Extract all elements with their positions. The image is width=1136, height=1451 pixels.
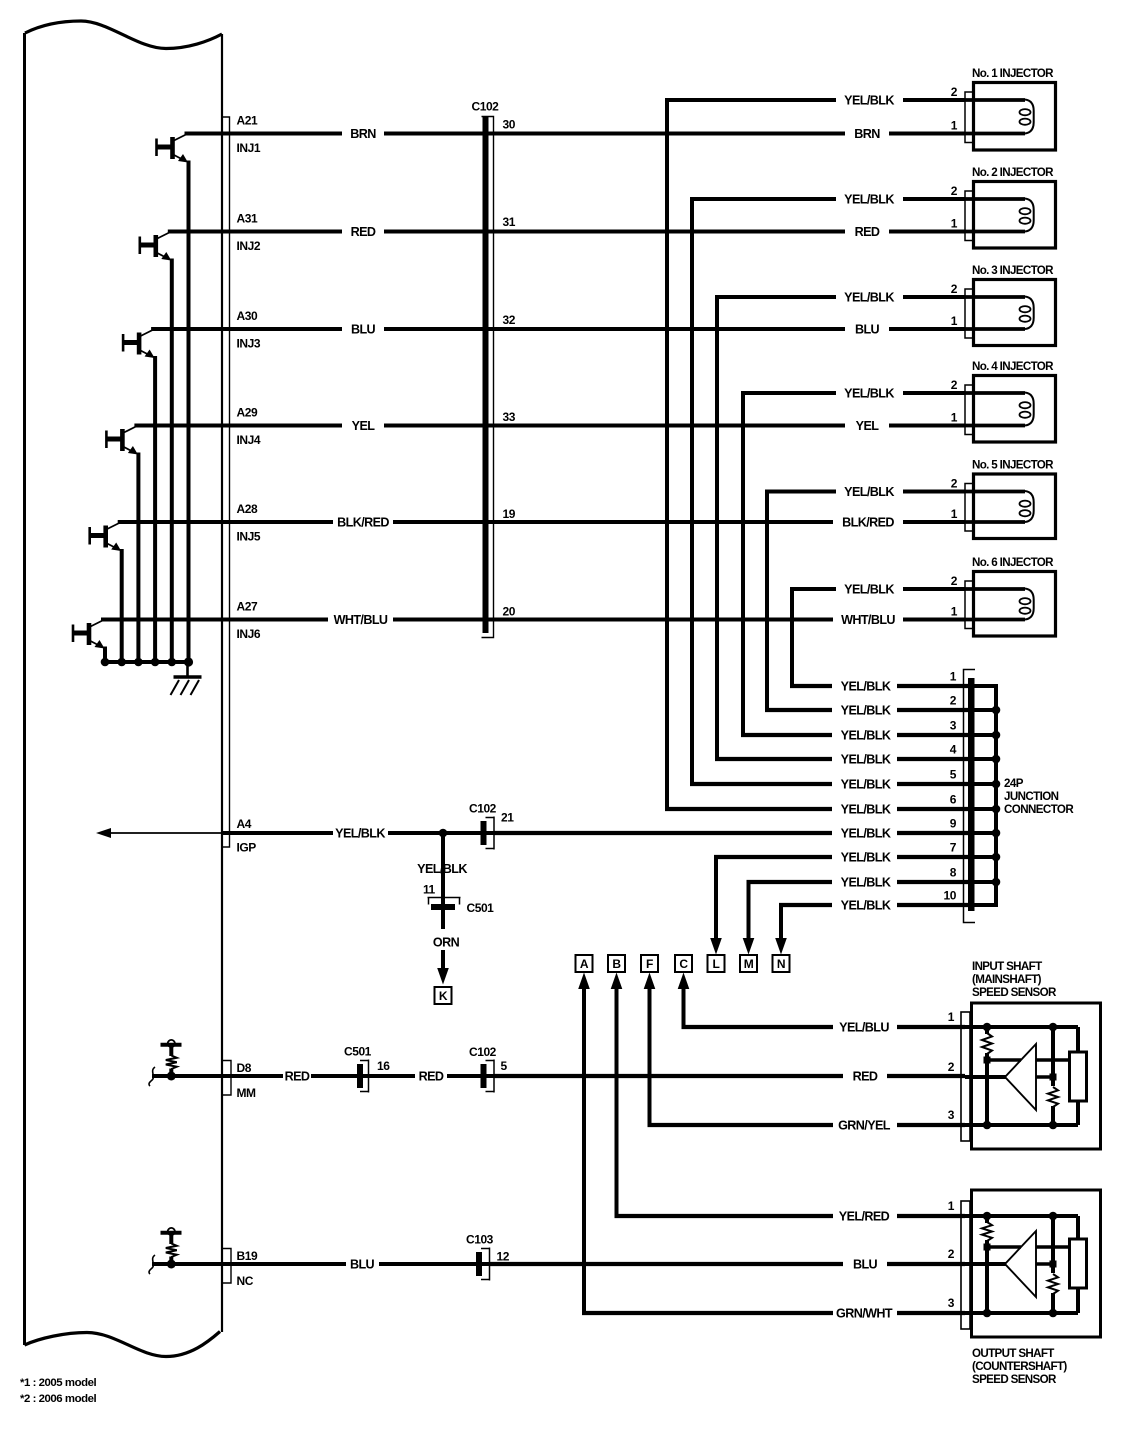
svg-text:YEL/BLK: YEL/BLK	[841, 704, 891, 718]
label wire colour RED (right)	[855, 225, 880, 239]
svg-text:No. 1 INJECTOR: No. 1 INJECTOR	[972, 67, 1054, 80]
pin 2 label of No.5 injector	[951, 477, 958, 491]
wire YEL/BLK junction pin 9 from C102 pin 21	[494, 831, 968, 835]
wire YEL/BLK junction pin 6 from riser	[665, 807, 968, 811]
junction connector pin 9 stub to bus	[974, 831, 998, 835]
svg-text:*1 : 2005 model: *1 : 2005 model	[20, 1377, 96, 1389]
wire YEL/BLK junction pin 7 to drop	[714, 855, 968, 859]
svg-text:YEL/BLK: YEL/BLK	[841, 753, 891, 767]
pin 1 label of No.6 injector	[951, 605, 958, 619]
svg-text:GRN/YEL: GRN/YEL	[838, 1119, 891, 1133]
svg-text:2: 2	[951, 282, 958, 296]
svg-text:33: 33	[503, 410, 516, 424]
node M (connector box)	[740, 955, 757, 972]
svg-text:2: 2	[951, 85, 958, 99]
label wire colour ORN	[433, 936, 460, 950]
svg-text:1: 1	[951, 217, 958, 231]
svg-text:BLK/RED: BLK/RED	[337, 516, 389, 530]
svg-text:C102: C102	[472, 100, 500, 114]
wire YEL/BLK No.4 injector pin2 to junction riser	[741, 391, 965, 395]
node B (connector box)	[608, 955, 625, 972]
pin 2 label of No.3 injector	[951, 282, 958, 296]
pin 1 label of No.4 injector	[951, 411, 958, 425]
connector C501 pin 16 symbol	[357, 1060, 369, 1093]
svg-text:1: 1	[948, 1199, 955, 1213]
wire YEL/BLK junction pin 8 to drop	[747, 880, 969, 884]
wire YEL from C102 pin to No.4 injector	[384, 424, 965, 428]
pin D8 bracket	[222, 1061, 231, 1096]
svg-text:YEL/BLK: YEL/BLK	[417, 862, 467, 876]
node junction on D8 row	[167, 1072, 176, 1081]
svg-text:A31: A31	[237, 212, 258, 226]
No.4 injector L4 with solenoid coil	[965, 376, 1056, 443]
wire drop to connector M	[743, 882, 755, 955]
pin B19/NC labels	[237, 1249, 258, 1288]
label No.2 INJECTOR	[972, 166, 1054, 179]
pin number 3 of junction connector	[950, 719, 957, 733]
wire RED from Q2 collector through pin to C102	[168, 230, 342, 234]
svg-text:YEL/BLK: YEL/BLK	[841, 803, 891, 817]
pin A21/INJ1 labels	[237, 114, 261, 156]
junction connector pin 5 stub to bus	[974, 782, 998, 786]
label YEL/BLK (injector 2)	[844, 193, 894, 207]
24P junction connector common bus	[992, 686, 1001, 905]
pin A4/IGP labels	[237, 817, 257, 855]
svg-text:7: 7	[950, 841, 957, 855]
label YEL/BLK (junction pin 6)	[841, 803, 891, 817]
wire A4 IGP internal with arrow (to power source)	[96, 828, 222, 838]
pin number 9 of junction connector	[950, 817, 957, 831]
svg-text:RED: RED	[853, 1070, 878, 1084]
node F (connector box)	[641, 955, 658, 972]
svg-text:YEL/BLK: YEL/BLK	[841, 729, 891, 743]
svg-text:5: 5	[501, 1059, 508, 1073]
pin 2 of input shaft sensor	[948, 1060, 955, 1074]
svg-text:21: 21	[501, 811, 514, 825]
pin 2 label of No.6 injector	[951, 574, 958, 588]
label YEL/BLK (junction pin 10)	[841, 899, 891, 913]
wire WHT/BLU from C102 pin to No.6 injector	[393, 618, 965, 622]
wire YEL/BLK No.2 injector pin2 to junction riser	[690, 197, 965, 201]
wire BLU from Q3 collector through pin to C102	[151, 327, 342, 331]
wire BLU from B19 to C103	[379, 1262, 490, 1266]
label OUTPUT SHAFT (COUNTERSHAFT) SPEED SENSOR	[972, 1347, 1067, 1386]
output shaft (countershaft) speed sensor	[961, 1190, 1101, 1337]
pin 2 label of No.4 injector	[951, 378, 958, 392]
wire ORN from C501 to K	[437, 910, 449, 985]
wire YEL/BLK junction pin 5 from riser	[690, 782, 968, 786]
svg-text:YEL/BLK: YEL/BLK	[841, 827, 891, 841]
label wire colour YEL/BLU	[839, 1021, 889, 1035]
svg-text:(COUNTERSHAFT): (COUNTERSHAFT)	[972, 1360, 1067, 1373]
wire from B down to sensor row	[611, 973, 623, 1217]
pin number 4 of junction connector	[950, 743, 957, 757]
pin B19 bracket	[222, 1249, 231, 1284]
svg-text:YEL/BLK: YEL/BLK	[844, 387, 894, 401]
label YEL/BLK (A4 row)	[335, 827, 385, 841]
connector C501 symbol (vertical wire)	[428, 898, 461, 911]
wire YEL/BLK No.6 injector pin2 to junction riser	[790, 587, 965, 591]
node junction on B19 row	[167, 1260, 176, 1269]
label wire colour YEL/RED	[839, 1210, 890, 1224]
label wire colour GRN/WHT	[836, 1307, 893, 1321]
svg-text:CONNECTOR: CONNECTOR	[1004, 803, 1074, 816]
label INPUT SHAFT (MAINSHAFT) SPEED SENSOR	[972, 960, 1057, 999]
wire Q5 emitter to ground bus	[120, 549, 124, 662]
svg-text:RED: RED	[419, 1070, 444, 1084]
svg-text:YEL/BLK: YEL/BLK	[844, 94, 894, 108]
label YEL/BLK (branch)	[417, 862, 467, 876]
svg-text:YEL/BLU: YEL/BLU	[839, 1021, 889, 1035]
svg-text:C102: C102	[469, 1045, 497, 1059]
svg-text:NC: NC	[237, 1274, 254, 1288]
pin number 12 of C103	[497, 1250, 510, 1264]
svg-text:3: 3	[950, 719, 957, 733]
wire YEL/BLK from pin A4 to C102 pin 21	[222, 831, 494, 835]
svg-text:BLU: BLU	[351, 323, 376, 337]
wire YEL from Q4 collector through pin to C102	[134, 424, 342, 428]
svg-text:YEL/BLK: YEL/BLK	[844, 485, 894, 499]
svg-text:6: 6	[950, 793, 957, 807]
label YEL/BLK (injector 4)	[844, 387, 894, 401]
label YEL/BLK (junction pin 4)	[841, 753, 891, 767]
wire drop to connector L	[710, 857, 722, 955]
wire BRN from Q1 collector through pin to C102	[185, 132, 343, 136]
svg-text:INJ3: INJ3	[237, 337, 261, 351]
svg-text:RED: RED	[285, 1070, 310, 1084]
svg-text:20: 20	[503, 605, 516, 619]
label YEL/BLK (junction pin 3)	[841, 729, 891, 743]
wire GRN/YEL to sensor pin 3	[648, 1123, 966, 1127]
svg-text:31: 31	[503, 215, 516, 229]
connector C103 pin 12 symbol	[476, 1248, 490, 1281]
svg-text:INJ2: INJ2	[237, 239, 261, 253]
wire YEL/BLK No.1 injector pin2 to junction riser	[665, 98, 965, 102]
wire riser from No.5 injector to 24P junction pin 2	[765, 492, 769, 711]
label wire colour BLU (right)	[855, 323, 880, 337]
junction connector pin 4 stub to bus	[974, 757, 998, 761]
svg-text:32: 32	[503, 313, 516, 327]
svg-text:BLK/RED: BLK/RED	[842, 516, 894, 530]
label wire colour WHT/BLU (right)	[841, 613, 895, 627]
svg-text:A28: A28	[237, 502, 258, 516]
wire YEL/RED to sensor pin 1	[615, 1214, 966, 1218]
junction connector pin 1 stub to bus	[974, 684, 998, 688]
svg-text:YEL/BLK: YEL/BLK	[841, 778, 891, 792]
resistor (B19 pull-up)	[166, 1235, 177, 1265]
label YEL/BLK (junction pin 9 row)	[841, 827, 891, 841]
label YEL/BLK (injector 1)	[844, 94, 894, 108]
label No.4 INJECTOR	[972, 360, 1054, 373]
svg-text:1: 1	[951, 411, 958, 425]
svg-text:No. 4 INJECTOR: No. 4 INJECTOR	[972, 360, 1054, 373]
svg-text:SPEED SENSOR: SPEED SENSOR	[972, 986, 1057, 999]
pin 1 label of No.2 injector	[951, 217, 958, 231]
label C103	[466, 1233, 494, 1247]
pin number 10 of junction connector	[944, 889, 957, 903]
wire Q1 emitter to ground bus	[187, 161, 191, 663]
svg-text:*2 : 2006 model: *2 : 2006 model	[20, 1393, 96, 1405]
transistor Q6 (INJ6 driver)	[73, 621, 105, 649]
svg-text:A30: A30	[237, 309, 258, 323]
wire YEL/BLK junction pin 1 from riser	[790, 684, 968, 688]
svg-text:INJ5: INJ5	[237, 530, 261, 544]
junction connector pin 10 stub to bus	[974, 903, 998, 907]
svg-text:IGP: IGP	[237, 841, 257, 855]
wire stub with hook (B19 row)	[149, 1255, 346, 1274]
wire Q4 emitter to ground bus	[136, 453, 140, 663]
svg-text:30: 30	[503, 118, 516, 132]
pin number 6 of junction connector	[950, 793, 957, 807]
label wire colour BRN (left)	[350, 127, 376, 141]
svg-text:5: 5	[950, 768, 957, 782]
wire Q2 emitter to ground bus	[170, 259, 174, 663]
svg-text:24P: 24P	[1004, 777, 1024, 790]
svg-text:No. 3 INJECTOR: No. 3 INJECTOR	[972, 264, 1054, 277]
svg-text:K: K	[439, 989, 448, 1003]
svg-text:10: 10	[944, 889, 957, 903]
svg-text:INJ4: INJ4	[237, 433, 261, 447]
pin 2 label of No.1 injector	[951, 85, 958, 99]
svg-text:No. 6 INJECTOR: No. 6 INJECTOR	[972, 556, 1054, 569]
ground bus joining emitters	[101, 657, 193, 666]
wire Q6 emitter to ground bus	[103, 647, 107, 663]
label No.5 INJECTOR	[972, 459, 1054, 472]
label C102	[472, 100, 500, 114]
svg-text:YEL/BLK: YEL/BLK	[844, 193, 894, 207]
pin number 16 of C501	[377, 1059, 390, 1073]
svg-text:B: B	[612, 957, 621, 971]
svg-text:1: 1	[948, 1010, 955, 1024]
wire from F down to sensor row	[644, 973, 656, 1126]
label YEL/BLK (junction pin 1)	[841, 680, 891, 694]
pin 1 label of No.3 injector	[951, 314, 958, 328]
label YEL/BLK (injector 6)	[844, 583, 894, 597]
wire RED from C102 to input shaft sensor pin 2	[494, 1074, 965, 1078]
pin 1 of output shaft sensor	[948, 1199, 955, 1213]
pin number 32 of C102	[503, 313, 516, 327]
pin number 2 of junction connector	[950, 694, 957, 708]
svg-text:2: 2	[951, 477, 958, 491]
footnote *2 2006 model	[20, 1393, 96, 1405]
transistor Q1 (INJ1 driver)	[157, 135, 189, 163]
pin 2 label of No.2 injector	[951, 184, 958, 198]
node A (connector box)	[576, 955, 593, 972]
svg-text:2: 2	[950, 694, 957, 708]
connector C102 pin 5 symbol	[481, 1060, 495, 1093]
wire riser from No.2 injector to 24P junction pin 5	[690, 199, 694, 784]
label No.3 INJECTOR	[972, 264, 1054, 277]
junction connector pin 3 stub to bus	[974, 733, 998, 737]
wire RED from C102 pin to No.2 injector	[384, 230, 965, 234]
svg-text:RED: RED	[855, 225, 880, 239]
wire WHT/BLU from Q6 collector through pin to C102	[101, 618, 328, 622]
wire riser from No.6 injector to 24P junction pin 1	[790, 589, 794, 686]
junction connector pin 7 stub to bus	[974, 855, 998, 859]
label RED (1)	[285, 1070, 310, 1084]
No.5 injector L5 with solenoid coil	[965, 474, 1056, 539]
wire YEL/BLK junction pin 10 to drop	[779, 903, 968, 907]
pin number 20 of C102	[503, 605, 516, 619]
pin 1 of input shaft sensor	[948, 1010, 955, 1024]
label C102 (pin 21)	[469, 802, 497, 816]
svg-text:BLU: BLU	[853, 1258, 878, 1272]
svg-text:B19: B19	[237, 1249, 258, 1263]
No.3 injector L3 with solenoid coil	[965, 280, 1056, 346]
connector C102 pin 21 symbol	[481, 817, 495, 850]
svg-text:C102: C102	[469, 802, 497, 816]
label wire colour WHT/BLU (left)	[334, 613, 388, 627]
svg-text:C103: C103	[466, 1233, 494, 1247]
svg-text:C501: C501	[344, 1045, 372, 1059]
svg-text:1: 1	[951, 119, 958, 133]
pin A28/INJ5 labels	[237, 502, 261, 544]
svg-text:BLU: BLU	[855, 323, 880, 337]
svg-text:BRN: BRN	[350, 127, 376, 141]
pin number 30 of C102	[503, 118, 516, 132]
svg-text:1: 1	[950, 670, 957, 684]
24P junction connector body	[964, 670, 976, 923]
wire BLU from C102 pin to No.3 injector	[384, 327, 965, 331]
pin A27/INJ6 labels	[237, 600, 261, 642]
pin number 7 of junction connector	[950, 841, 957, 855]
label 24P JUNCTION CONNECTOR	[1004, 777, 1074, 816]
wire YEL/BLK No.3 injector pin2 to junction riser	[715, 295, 965, 299]
label No.6 INJECTOR	[972, 556, 1054, 569]
wire stub with hook (D8 row)	[149, 1067, 283, 1086]
pin number 5 of C102	[501, 1059, 508, 1073]
svg-text:RED: RED	[351, 225, 376, 239]
wire from C down to sensor row	[678, 973, 690, 1028]
svg-text:YEL: YEL	[352, 419, 376, 433]
svg-text:2: 2	[951, 378, 958, 392]
svg-text:YEL/BLK: YEL/BLK	[844, 583, 894, 597]
svg-text:M: M	[744, 957, 754, 971]
label wire colour BLK/RED (left)	[337, 516, 389, 530]
svg-text:YEL/BLK: YEL/BLK	[844, 291, 894, 305]
pin A31/INJ2 labels	[237, 212, 261, 254]
svg-text:N: N	[777, 957, 785, 971]
svg-text:2: 2	[951, 574, 958, 588]
wire YEL/BLU to sensor pin 1	[682, 1025, 966, 1029]
svg-text:2: 2	[948, 1060, 955, 1074]
svg-text:16: 16	[377, 1059, 390, 1073]
svg-text:1: 1	[951, 605, 958, 619]
svg-text:D8: D8	[237, 1061, 252, 1075]
svg-text:A4: A4	[237, 817, 252, 831]
svg-text:C501: C501	[467, 901, 495, 915]
wire YEL/BLK branch down to C501	[441, 833, 445, 904]
svg-text:SPEED SENSOR: SPEED SENSOR	[972, 1373, 1057, 1386]
pin number 19 of C102	[503, 507, 516, 521]
pin number 33 of C102	[503, 410, 516, 424]
svg-text:ORN: ORN	[433, 936, 460, 950]
pin 3 of output shaft sensor	[948, 1296, 955, 1310]
label YEL/BLK (junction pin 8)	[841, 876, 891, 890]
svg-text:A29: A29	[237, 406, 258, 420]
junction connector pin 8 stub to bus	[974, 880, 998, 884]
wire RED from C501 to C102	[369, 1074, 494, 1078]
pin D8/MM labels	[237, 1061, 257, 1100]
svg-text:8: 8	[950, 866, 957, 880]
svg-text:INJ6: INJ6	[237, 627, 261, 641]
label wire colour GRN/YEL	[838, 1119, 891, 1133]
ECM/PCM body outline	[25, 21, 223, 1357]
svg-text:MM: MM	[237, 1086, 257, 1100]
svg-text:INPUT SHAFT: INPUT SHAFT	[972, 960, 1042, 973]
svg-text:(MAINSHAFT): (MAINSHAFT)	[972, 973, 1042, 986]
label RED (2)	[419, 1070, 444, 1084]
pin 3 of input shaft sensor	[948, 1108, 955, 1122]
pin A30/INJ3 labels	[237, 309, 261, 351]
pin number 11 of C501	[423, 883, 436, 897]
svg-text:9: 9	[950, 817, 957, 831]
wire BLK/RED from Q5 collector through pin to C102	[118, 520, 333, 524]
wire GRN/WHT to sensor pin 3	[582, 1311, 965, 1315]
label YEL/BLK (junction pin 2)	[841, 704, 891, 718]
wire BLU from C103 to output shaft sensor pin 2	[490, 1262, 966, 1266]
transistor Q5 (INJ5 driver)	[90, 523, 122, 551]
svg-text:YEL/BLK: YEL/BLK	[335, 827, 385, 841]
svg-text:4: 4	[950, 743, 957, 757]
svg-text:BLU: BLU	[350, 1258, 375, 1272]
svg-text:YEL/BLK: YEL/BLK	[841, 851, 891, 865]
pin number 21 of C102	[501, 811, 514, 825]
label wire colour RED (left)	[351, 225, 376, 239]
pin 1 label of No.5 injector	[951, 507, 958, 521]
label wire colour YEL (left)	[352, 419, 376, 433]
pin number 5 of junction connector	[950, 768, 957, 782]
wire riser from No.1 injector to 24P junction pin 6	[665, 100, 669, 809]
junction connector pin 2 stub to bus	[974, 708, 998, 712]
label No.1 INJECTOR	[972, 67, 1054, 80]
pin number 8 of junction connector	[950, 866, 957, 880]
node L (connector box)	[708, 955, 725, 972]
label wire colour BLU (left)	[351, 323, 376, 337]
label RED (3)	[853, 1070, 878, 1084]
node C (connector box)	[675, 955, 692, 972]
svg-text:3: 3	[948, 1108, 955, 1122]
label wire colour BRN (right)	[854, 127, 880, 141]
footnote *1 2005 model	[20, 1377, 96, 1389]
No.2 injector L2 with solenoid coil	[965, 182, 1056, 249]
node K (connector box)	[435, 987, 452, 1004]
wire riser from No.4 injector to 24P junction pin 3	[741, 393, 745, 735]
pin number 1 of junction connector	[950, 670, 957, 684]
label BLU (left)	[350, 1258, 375, 1272]
svg-text:19: 19	[503, 507, 516, 521]
label YEL/BLK (junction pin 7)	[841, 851, 891, 865]
pin 1 label of No.1 injector	[951, 119, 958, 133]
label YEL/BLK (junction pin 5)	[841, 778, 891, 792]
label YEL/BLK (injector 3)	[844, 291, 894, 305]
svg-text:C: C	[679, 957, 688, 971]
svg-text:12: 12	[497, 1250, 510, 1264]
transistor Q4 (INJ4 driver)	[106, 427, 137, 455]
resistor (D8 pull-up)	[166, 1047, 177, 1077]
svg-text:A: A	[580, 957, 589, 971]
wire YEL/BLK junction pin 3 from riser	[741, 733, 968, 737]
input shaft (mainshaft) speed sensor	[961, 1003, 1101, 1149]
svg-text:WHT/BLU: WHT/BLU	[334, 613, 388, 627]
No.6 injector L6 with solenoid coil	[965, 572, 1056, 637]
svg-text:YEL: YEL	[856, 419, 880, 433]
wire riser from No.3 injector to 24P junction pin 4	[715, 297, 719, 759]
wire BLK/RED from C102 pin to No.5 injector	[393, 520, 965, 524]
svg-text:YEL/BLK: YEL/BLK	[841, 876, 891, 890]
node N (connector box)	[773, 955, 790, 972]
wire RED from D8 to C501	[311, 1074, 369, 1078]
